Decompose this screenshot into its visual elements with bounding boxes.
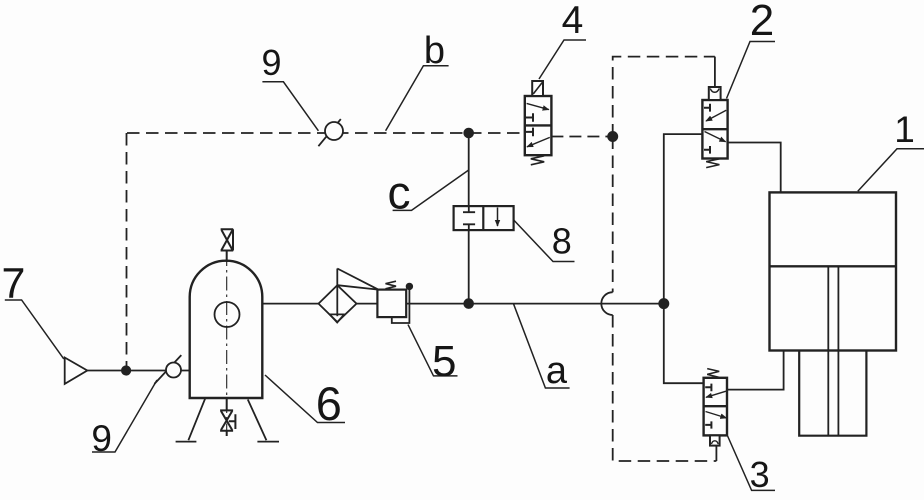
valve 4 solenoid: [532, 81, 543, 96]
leader for 8: [514, 220, 575, 262]
valve 4 top cell blocked port: [526, 113, 533, 122]
wire: solid rise to valve3 pilot: [715, 446, 717, 461]
regulator 5 body: [377, 290, 406, 318]
cylinder 1 rod guide block: [799, 351, 866, 436]
valve 2 bottom cell blocked port: [704, 146, 710, 154]
tank 6 body: [190, 261, 263, 398]
svg-text:2: 2: [750, 0, 774, 45]
valve 4 bottom cell blocked port: [526, 128, 533, 137]
node: junction a/c: [464, 299, 473, 308]
svg-text:5: 5: [432, 337, 456, 386]
valve 2 bottom cell arrow: [705, 132, 726, 142]
wire: pilot dashed vertical left: [126, 133, 128, 371]
node: junction b/c: [464, 129, 473, 138]
leader for c: [393, 170, 469, 210]
intake triangle 7: [65, 358, 88, 384]
tank sight glass circle: [215, 302, 240, 327]
svg-text:c: c: [388, 166, 411, 218]
svg-text:7: 7: [1, 260, 25, 308]
valve 2 pilot box: [709, 87, 721, 100]
valve 3 bottom cell arrow: [706, 412, 727, 419]
cylinder 1 piston: [770, 265, 897, 267]
filter wedge to regulator: [337, 269, 378, 290]
leader for 2: [727, 42, 776, 99]
tank drain valve: [220, 398, 236, 436]
tank top valve: [221, 229, 234, 262]
wire: solid drop to valve2 pilot: [714, 57, 716, 87]
node: junction a to valves: [659, 299, 668, 308]
wire: valve4 out to node dashed: [551, 136, 612, 138]
leader for 7: [5, 300, 64, 359]
node: junction pilot net: [608, 132, 617, 141]
filter center line: [336, 269, 338, 317]
wire: line c vertical solid: [468, 133, 470, 304]
valve 3 spring: [707, 369, 719, 378]
tank centerline: [226, 252, 228, 434]
valve 2 body: [702, 100, 727, 159]
wire: dashed up from node to valve2 pilot: [613, 57, 715, 137]
svg-text:9: 9: [261, 42, 281, 83]
valve 3 top cell blocked port: [705, 384, 711, 392]
node: junction intake/pilot: [122, 366, 130, 374]
svg-text:8: 8: [552, 220, 572, 261]
cylinder 1 rod lines: [828, 266, 838, 435]
valve 3 top cell arrow: [706, 391, 726, 397]
wire: tank to filter: [262, 303, 318, 305]
wire: intake line: [87, 370, 189, 372]
leader for 3: [728, 436, 775, 490]
valve 3 pilot box: [710, 435, 720, 445]
valve 2 spring: [706, 159, 719, 168]
leader for 6: [265, 375, 345, 423]
wire: pilot line b dashed horizontal: [127, 132, 525, 134]
valve 4 top cell arrow: [527, 103, 549, 109]
regulator 5 spring: [386, 281, 397, 289]
svg-text:1: 1: [894, 109, 915, 150]
check valve 9 (lower, at tank inlet): [154, 355, 181, 384]
valve 3 bottom cell blocked port: [705, 421, 711, 428]
svg-text:3: 3: [750, 454, 770, 495]
wire: filter to regulator: [357, 303, 378, 305]
regulator 5 feedback loop: [392, 286, 410, 323]
wire: branch to valve3 left: [664, 304, 704, 384]
tank leg left: [176, 399, 206, 442]
wire: valve2 out to cylinder top: [728, 143, 781, 193]
shut-off valve 8 body: [454, 206, 514, 230]
wire: valve3 out to cylinder bottom: [727, 351, 784, 390]
leader for 5: [408, 325, 458, 376]
cylinder 1 barrel: [770, 192, 897, 350]
valve 2 top cell arrow: [706, 110, 726, 121]
wire: branch to valve2 left: [664, 134, 703, 304]
leader for a: [514, 304, 570, 388]
leader for 4: [539, 40, 586, 79]
leader for 9 (lower): [92, 380, 157, 452]
valve 8 closed symbols: [463, 206, 475, 230]
check valve 9 (upper, on line b): [318, 119, 343, 146]
valve 4 spring: [531, 156, 544, 165]
valve 8 flow arrow: [497, 208, 499, 227]
svg-text:6: 6: [316, 377, 342, 430]
wire: dashed down from node with hop over line a: [612, 137, 614, 293]
svg-text:9: 9: [91, 418, 112, 459]
leader for 9 (upper): [262, 82, 318, 131]
svg-text:4: 4: [562, 0, 584, 42]
svg-text:b: b: [424, 30, 445, 72]
valve 4 bottom cell arrow: [527, 137, 550, 146]
leader for 1: [858, 149, 924, 192]
valve 4 body: [525, 96, 552, 155]
valve 2 top cell blocked port: [704, 104, 710, 112]
tank leg right: [248, 400, 279, 442]
wire: dashed continues down to bottom run: [613, 315, 717, 461]
svg-text:a: a: [546, 350, 568, 392]
regulator 5 tap dot: [407, 284, 413, 290]
wire: main line a: [406, 303, 664, 305]
wire hop arc over line a: [601, 292, 612, 315]
filter diamond: [319, 285, 357, 322]
valve 3 body: [704, 378, 727, 436]
leader for b: [386, 66, 449, 131]
filter drain triangle: [330, 314, 344, 322]
